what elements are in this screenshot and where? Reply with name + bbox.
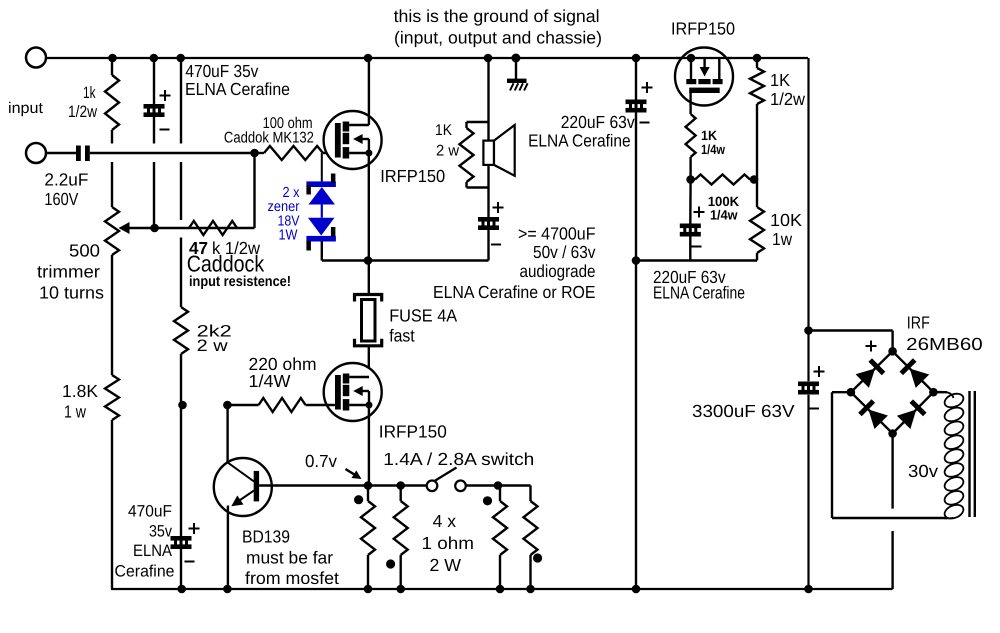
- wire bridge minus to bottom rail (hops transformer wire): [891, 434, 893, 509]
- node dot 0.7v junction x=368: [364, 481, 373, 490]
- node dot top rail x=488: [484, 54, 493, 63]
- capacitor C7 3300uF 63V: [798, 382, 819, 387]
- bold marker dots near 1ohm resistors: [354, 495, 363, 504]
- capacitor C3 470uF 35v (bottom): [171, 536, 192, 541]
- svg-text:1 w: 1 w: [64, 402, 86, 422]
- svg-text:must be far: must be far: [246, 548, 333, 568]
- wire x=636 branch: [635, 58, 637, 101]
- wire zener bottom to source node: [321, 242, 323, 261]
- switch SW1 1.4A/2.8A: [427, 481, 438, 492]
- wire top rail: [46, 57, 808, 59]
- ground symbol: [515, 58, 517, 79]
- svg-text:35v: 35v: [149, 523, 173, 541]
- node dot x=636 y=260.5: [632, 256, 641, 265]
- wire fuse to Q2 drain: [368, 346, 370, 377]
- svg-text:1K: 1K: [770, 70, 790, 90]
- node dot bias x=754: [750, 175, 759, 184]
- svg-text:FUSE 4A: FUSE 4A: [389, 306, 457, 326]
- mosfet Q2 IRFP150 (lower): [324, 363, 382, 421]
- node dot bottom rail x=808: [804, 585, 813, 594]
- svg-text:IRFP150: IRFP150: [379, 422, 447, 442]
- wire between zeners: [321, 205, 323, 218]
- svg-text:160V: 160V: [44, 189, 78, 209]
- svg-text:30v: 30v: [908, 461, 938, 481]
- node dot top rail x=154: [150, 54, 159, 63]
- svg-text:Caddok MK132: Caddok MK132: [224, 130, 314, 147]
- capacitor C1 470uF 35v: [144, 104, 165, 109]
- svg-text:ELNA: ELNA: [133, 542, 172, 560]
- wire gate node down to zeners: [321, 153, 323, 181]
- wire output branch upper: [487, 58, 489, 141]
- node dot top rail x=368: [364, 54, 373, 63]
- resistor R10 1ohm (d): [524, 501, 538, 555]
- label + bridge: [866, 345, 877, 347]
- wire 0.7v node to switch: [368, 484, 427, 486]
- wire Q1 drain to top rail: [368, 58, 370, 125]
- node dot y=405 x=182: [178, 401, 187, 410]
- wire C4 to output node: [487, 230, 489, 261]
- svg-text:audiograde: audiograde: [520, 261, 596, 281]
- svg-text:Cerafine: Cerafine: [115, 563, 175, 581]
- svg-text:IRFP150: IRFP150: [671, 19, 735, 39]
- svg-text:1/2w: 1/2w: [68, 103, 97, 121]
- svg-text:1.4A / 2.8A switch: 1.4A / 2.8A switch: [383, 449, 534, 469]
- svg-text:1/4w: 1/4w: [701, 142, 725, 157]
- svg-text:IRFP150: IRFP150: [380, 166, 445, 186]
- svg-text:2 W: 2 W: [430, 555, 462, 575]
- mosfet Q1 IRFP150 (upper): [324, 111, 382, 169]
- wire to bridge + terminal: [809, 329, 893, 331]
- wire right vertical rail: [807, 58, 809, 381]
- svg-text:from mosfet: from mosfet: [245, 568, 339, 588]
- transformer T1 secondary coil: [933, 392, 953, 398]
- mosfet Q4 IRFP150 (top right, source follower): [675, 48, 733, 106]
- svg-text:ELNA Cerafine: ELNA Cerafine: [653, 283, 745, 303]
- node dots bridge vertices: [888, 347, 897, 356]
- svg-text:4 x: 4 x: [433, 511, 457, 531]
- svg-text:1.8K: 1.8K: [62, 381, 98, 401]
- node dot top rail x=181: [176, 54, 185, 63]
- node dot bottom rail x=227: [223, 585, 232, 594]
- wire Q4 gate down: [689, 93, 691, 114]
- wire Q1 source down to fuse: [368, 153, 370, 293]
- svg-text:1K: 1K: [435, 122, 453, 139]
- wire right bias net y=260.5: [636, 259, 757, 261]
- wire bottom rail: [111, 588, 893, 590]
- wire Q3 collector from 220ohm node: [226, 405, 228, 463]
- diode D1 (L to T): [856, 369, 876, 388]
- transformer core bars: [968, 391, 970, 517]
- svg-text:fast: fast: [389, 326, 415, 346]
- resistor R3 2k2 2w: [174, 307, 188, 354]
- svg-text:1W: 1W: [279, 228, 298, 244]
- resistor R4 47k 1/2w Caddock: [189, 221, 237, 235]
- transistor Q3 BD139: [214, 458, 272, 516]
- svg-text:470uF 35v: 470uF 35v: [185, 61, 258, 81]
- zener diode ZD1 (top, cathode up): [306, 181, 336, 187]
- svg-text:1K: 1K: [701, 128, 717, 143]
- node dot trimmer wiper junction: [150, 224, 159, 233]
- capacitor C2 2.2uF 160V: [46, 152, 76, 154]
- wire switch right to resistors: [466, 484, 531, 486]
- wire speaker to C4: [487, 165, 489, 217]
- svg-text:470uF: 470uF: [128, 503, 172, 521]
- resistor R15 10K 1w: [756, 180, 758, 208]
- wire branch x=154: [153, 58, 155, 104]
- svg-text:1 ohm: 1 ohm: [422, 533, 475, 553]
- bridge rectifier D1-D4 IRF 26MB60 frame: [851, 351, 893, 392]
- svg-text:1/2w: 1/2w: [770, 89, 805, 109]
- svg-text:(input, output and chassie): (input, output and chassie): [394, 28, 602, 48]
- svg-text:IRF: IRF: [907, 313, 930, 333]
- speaker LS1: [483, 141, 494, 165]
- node dot top rail x=636: [632, 54, 641, 63]
- svg-text:2 w: 2 w: [436, 143, 460, 160]
- resistor R8 1ohm (b): [400, 486, 402, 502]
- node dot top rail ground stub: [511, 54, 520, 63]
- svg-text:10 turns: 10 turns: [39, 283, 104, 303]
- wire R12 to bias node: [689, 157, 691, 180]
- resistor R13 100K 1/4w: [691, 178, 695, 180]
- svg-text:BD139: BD139: [242, 527, 290, 547]
- wire branch x=181: [180, 58, 182, 144]
- wire Q2 source down to switch node: [368, 405, 370, 486]
- svg-text:2 w: 2 w: [197, 337, 228, 355]
- node dot x=808 y=330.5: [804, 326, 813, 335]
- zener diode ZD2 (bottom, cathode down): [308, 218, 335, 236]
- diode D2 (R to T): [910, 369, 930, 388]
- input terminal J1 (top): [26, 48, 46, 68]
- svg-text:50v / 63v: 50v / 63v: [533, 242, 596, 262]
- resistor R6 220 ohm 1/4W: [227, 404, 258, 406]
- trimmer P1 500 10 turns: [105, 207, 119, 255]
- svg-text:>= 4700uF: >= 4700uF: [518, 224, 596, 244]
- trimmer wiper arrow: [123, 227, 189, 229]
- node dot y=405 x=227: [223, 401, 232, 410]
- capacitor C6 220uF 63v (lower): [689, 180, 692, 226]
- diode D3 (B to L): [868, 410, 888, 430]
- svg-text:trimmer: trimmer: [37, 262, 100, 282]
- svg-text:3300uF 63V: 3300uF 63V: [692, 401, 795, 421]
- wire signal line: [90, 152, 255, 154]
- wire node A down to 47k: [253, 153, 255, 228]
- diode D4 (B to R): [897, 410, 916, 430]
- wire 47k node line y=228: [189, 227, 255, 229]
- svg-text:input resistence!: input resistence!: [189, 274, 291, 290]
- resistor R7 1ohm (a): [367, 486, 369, 502]
- resistor R11 1K 2w (speaker damp): [467, 121, 489, 123]
- svg-text:10K: 10K: [770, 210, 802, 230]
- svg-text:Caddock: Caddock: [187, 251, 265, 277]
- svg-text:1w: 1w: [772, 229, 792, 249]
- resistor R2 1.8K 1w: [105, 375, 119, 420]
- svg-text:0.7v: 0.7v: [305, 451, 337, 471]
- resistor R9 1ohm (c): [499, 486, 501, 502]
- svg-text:500: 500: [69, 241, 100, 261]
- svg-text:1k: 1k: [83, 84, 96, 102]
- wire Q3 base to 0.7v node: [259, 484, 368, 486]
- node dot bottom rail x=636: [632, 585, 641, 594]
- node dot top rail x=112: [108, 54, 117, 63]
- node dot x=400 y=485: [396, 481, 405, 490]
- svg-text:this is the ground of signal: this is the ground of signal: [394, 6, 600, 26]
- fuse F1 4A: [355, 295, 382, 302]
- node dots bottom rail under 1ohm resistors: [364, 585, 373, 594]
- node A junction dot signal/47k: [250, 149, 259, 158]
- wire left rail x=112 segments: [111, 58, 113, 75]
- svg-text:220uF 63v: 220uF 63v: [561, 112, 635, 132]
- svg-text:ELNA Cerafine: ELNA Cerafine: [528, 131, 631, 151]
- capacitor C5 220uF 63v (upper): [626, 100, 647, 105]
- node dot bottom rail x=181: [177, 585, 186, 594]
- node dot output junction x=368 y=260.5: [364, 256, 373, 265]
- wire transformer bottom loop to bridge AC left: [832, 517, 947, 519]
- svg-text:1/4W: 1/4W: [249, 371, 291, 391]
- svg-text:2.2uF: 2.2uF: [44, 170, 88, 190]
- svg-text:1/4w: 1/4w: [710, 208, 738, 223]
- svg-text:ELNA Cerafine or ROE: ELNA Cerafine or ROE: [433, 282, 596, 302]
- wire x=181 down through C3 to bottom rail: [180, 405, 182, 536]
- node dot top rail x=757: [753, 54, 762, 63]
- resistor R5 100 ohm Caddok MK132: [255, 152, 265, 154]
- node dot rail x=691 (Q4): [687, 54, 696, 63]
- resistor R12 1K 1/4w: [686, 114, 696, 157]
- resistor R1 1k 1/2w: [105, 75, 119, 130]
- capacitor C4 >=4700uF output: [478, 217, 499, 222]
- wire bridge AC right to transformer top: [933, 391, 947, 393]
- node dot bias x=690: [686, 175, 695, 184]
- svg-text:26MB60: 26MB60: [906, 334, 983, 354]
- resistor R14 1K 1/2w: [756, 58, 758, 68]
- svg-text:ELNA Cerafine: ELNA Cerafine: [185, 79, 290, 99]
- wire Q3 emitter to bottom rail: [227, 506, 229, 590]
- node dot x=498 y=485: [494, 481, 503, 490]
- svg-text:input: input: [8, 100, 44, 117]
- input terminal J2 (bottom): [26, 143, 46, 163]
